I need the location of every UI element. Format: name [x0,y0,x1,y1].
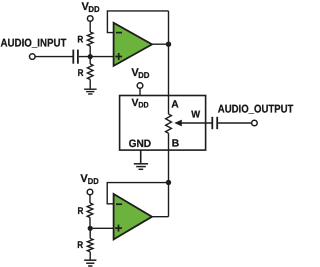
capacitor C1 [73,50,78,64]
terminal VDD (bottom-left) [87,189,93,195]
wire C2 to output terminal [218,122,251,124]
svg-text:R: R [77,240,83,251]
wire digipot GND to ground [140,150,142,164]
wire R4 to ground [89,252,91,260]
wire U3 output [152,216,169,218]
svg-text:R: R [78,68,84,79]
svg-text:A: A [171,99,179,110]
wire node to R4 [89,228,91,238]
wire U1 feedback (output to - input) [107,11,168,33]
ground (input divider) [84,89,97,94]
capacitor C2 (output) [212,117,217,129]
junction U1 output node [166,42,171,47]
op-amp U1 [114,23,152,66]
ground (bottom divider) [84,260,96,266]
svg-text:W: W [191,109,200,120]
wire node to U3 + input [90,227,113,229]
ground (digipot) [134,164,148,170]
terminal AUDIO_INPUT [30,54,36,60]
svg-text:R: R [77,35,83,46]
svg-text:DD: DD [138,101,148,110]
resistor R3 [87,203,93,218]
svg-text:AUDIO_INPUT: AUDIO_INPUT [1,37,67,49]
wire VDD terminal to R3 [89,195,91,203]
terminal VDD (digipot) [137,83,143,89]
power VDD label (bottom-left) [80,173,98,186]
wire input terminal to C1 [35,56,73,58]
terminal VDD (top-left) [87,16,93,22]
svg-text:B: B [172,138,179,149]
potentiometer element RDAC [166,114,172,133]
wire R1 to node [89,46,91,57]
resistor R1 [87,32,93,46]
wire U3 feedback (output to - input) [107,183,168,204]
wire VDD terminal to digipot [139,89,141,96]
digital potentiometer U2 box [120,96,206,151]
wire node to R2 [89,57,91,65]
wire vertical net potentiometer B down [168,133,170,217]
junction node at U3 + input [88,226,93,231]
resistor R4 [87,238,93,251]
op-amp U3 [114,194,152,239]
power VDD label (above digipot) [131,67,149,80]
pin label VDD (digipot) [132,97,149,110]
svg-text:GND: GND [129,138,152,150]
svg-text:R: R [78,206,84,217]
wire R3 to node [89,217,91,228]
junction node at U1 + input [88,54,93,59]
svg-text:DD: DD [88,176,99,186]
wire U1 output [152,43,169,45]
svg-text:DD: DD [138,70,149,80]
wire VDD terminal to R1 [89,21,91,32]
svg-text:DD: DD [88,4,99,14]
terminal AUDIO_OUTPUT [252,120,258,126]
wiper arrow W [174,120,212,127]
wire vertical net U1 output to potentiometer A [168,11,170,114]
wire R2 to ground [89,79,91,89]
wire C1 to U1 + input [79,56,114,58]
svg-text:AUDIO_OUTPUT: AUDIO_OUTPUT [218,104,294,116]
junction U3 feedback node [166,180,171,185]
power VDD label (top-left) [82,1,100,14]
resistor R2 [87,64,93,79]
